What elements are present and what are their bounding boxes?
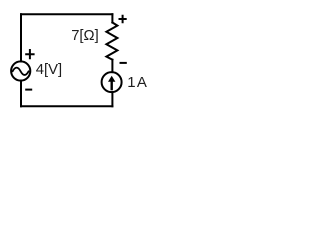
svg-text:1A: 1A [127, 74, 148, 91]
svg-text:4[V]: 4[V] [36, 62, 62, 78]
svg-text:7[Ω]: 7[Ω] [71, 28, 99, 44]
